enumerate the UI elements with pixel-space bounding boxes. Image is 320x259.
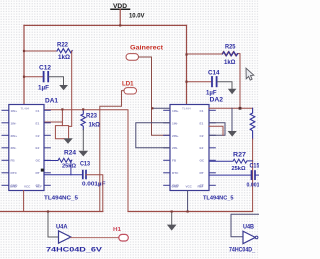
svg-text:R22: R22 xyxy=(57,43,69,49)
wire: U4A input tap xyxy=(48,212,59,238)
svg-text:REF: REF xyxy=(36,185,42,189)
ground arrow (R23 net) xyxy=(78,151,88,157)
svg-text:E2: E2 xyxy=(36,146,40,150)
chip DA2 TL494NC_5 xyxy=(170,96,234,201)
svg-text:DA2: DA2 xyxy=(210,96,224,103)
ground arrow (C14 net) xyxy=(228,89,237,94)
svg-text:E1: E1 xyxy=(200,121,204,125)
svg-text:C2: C2 xyxy=(36,134,40,138)
wire: DA1 pin1 row to bottom-right drop xyxy=(44,110,128,212)
svg-text:C12: C12 xyxy=(39,66,52,72)
wire: hook to arrow join xyxy=(62,125,68,127)
svg-text:VCC: VCC xyxy=(186,185,193,189)
ground arrow (DA2 pin1 net) xyxy=(228,108,237,136)
wire: Gainerect to DA2 pin 3 xyxy=(139,57,171,135)
svg-text:C1: C1 xyxy=(36,109,40,113)
svg-text:1kΩ: 1kΩ xyxy=(224,60,236,66)
DA1 right pin stubs xyxy=(44,110,50,185)
svg-text:25kΩ: 25kΩ xyxy=(232,166,246,172)
wire: right edge resistor down to rail xyxy=(252,139,254,212)
wire: R25 down to DA2 pin1 wire xyxy=(239,54,241,108)
svg-text:R25: R25 xyxy=(225,45,236,51)
net tag Gainerect xyxy=(126,45,163,61)
ground arrow (bottom rail) xyxy=(167,212,177,231)
svg-text:2IN-: 2IN- xyxy=(11,146,17,150)
wire: DA1 bottom pin to rail xyxy=(23,191,25,212)
wire: C14 to ground arrow xyxy=(217,82,232,89)
DA2 right pin stubs xyxy=(209,110,215,185)
capacitor C12 1µF xyxy=(38,66,52,92)
resistor R23 1kΩ xyxy=(81,110,100,130)
wire: DA2 pin1 right to right-edge resistor xyxy=(209,107,253,109)
junction (R25 net) xyxy=(239,107,242,110)
svg-text:C2: C2 xyxy=(200,134,204,138)
svg-text:1µF: 1µF xyxy=(38,86,49,92)
inverter U4B 74HC04D xyxy=(229,224,258,254)
svg-text:Gainerect: Gainerect xyxy=(130,45,163,52)
resistor R22 1kΩ xyxy=(57,43,72,61)
net tag H1 xyxy=(113,227,128,241)
svg-text:2IN+: 2IN+ xyxy=(172,134,179,138)
net tag LD1 xyxy=(122,81,137,94)
svg-text:1µF: 1µF xyxy=(206,90,217,96)
svg-text:DTC: DTC xyxy=(11,171,18,175)
wire: DA2 pin1 left feed xyxy=(152,107,170,109)
svg-text:GND: GND xyxy=(172,185,180,189)
svg-text:2IN+: 2IN+ xyxy=(11,134,18,138)
svg-text:C1: C1 xyxy=(200,109,204,113)
svg-text:10.0V: 10.0V xyxy=(129,13,145,20)
svg-text:VCC: VCC xyxy=(24,185,31,189)
svg-text:VDD: VDD xyxy=(113,3,127,10)
svg-text:LD1: LD1 xyxy=(122,81,134,88)
svg-text:RT: RT xyxy=(36,171,40,175)
svg-text:U4B: U4B xyxy=(243,224,254,231)
svg-text:74HC04D_6V: 74HC04D_6V xyxy=(46,247,103,254)
svg-text:GND: GND xyxy=(10,185,18,189)
junction (R24 at DA1 pin) xyxy=(41,169,44,172)
resistor R25 1kΩ xyxy=(187,45,241,66)
wire: R24 right drop to C13 net xyxy=(70,161,72,175)
mouse cursor xyxy=(246,68,254,80)
svg-text:1IN-: 1IN- xyxy=(11,121,17,125)
wire: left VDD drop to DA1 top pin xyxy=(23,25,25,104)
svg-text:U4A: U4A xyxy=(56,224,68,231)
capacitor C14 1µF xyxy=(187,70,221,96)
svg-text:TL494NC_5: TL494NC_5 xyxy=(203,196,234,202)
wire: VDD top rail xyxy=(24,24,187,26)
svg-text:E2: E2 xyxy=(200,146,204,150)
wire: R22 feed from VDD drop xyxy=(24,50,57,52)
svg-text:1IN+: 1IN+ xyxy=(11,109,18,113)
svg-text:REF: REF xyxy=(198,185,204,189)
wire: right VDD drop to DA2 top pin xyxy=(186,25,188,104)
svg-text:H1: H1 xyxy=(113,227,121,233)
DA1 bottom inside labels xyxy=(10,185,42,189)
DA2 bottom inside labels xyxy=(172,185,204,189)
wire: LD1 net down to bottom rail xyxy=(100,91,124,212)
wire: DA2 red jog pins xyxy=(209,126,223,135)
svg-text:C13: C13 xyxy=(80,162,91,168)
wire: DA2 bottom pin to rail xyxy=(187,191,189,213)
resistor R27 25kΩ xyxy=(209,152,253,172)
DA1 left pin stubs xyxy=(2,110,9,185)
chip DA1 TL494NC_5 xyxy=(9,98,79,202)
svg-text:E1: E1 xyxy=(36,121,40,125)
svg-text:2IN-: 2IN- xyxy=(172,146,178,150)
wire: DA2 left pins 2-4 loop xyxy=(136,123,170,148)
svg-text:C14: C14 xyxy=(208,70,220,76)
svg-text:1IN-: 1IN- xyxy=(172,121,178,125)
svg-text:R24: R24 xyxy=(64,151,77,157)
DA1 pin labels xyxy=(11,109,19,188)
DA2 pin labels xyxy=(172,109,180,188)
svg-text:DA1: DA1 xyxy=(45,98,58,105)
ground arrow (C12 net) xyxy=(59,85,68,90)
svg-text:C15: C15 xyxy=(250,164,260,170)
svg-text:DTC: DTC xyxy=(172,171,179,175)
wire: bottom right ground rail xyxy=(128,211,253,213)
resistor R24 25kΩ xyxy=(44,151,77,170)
svg-text:OC: OC xyxy=(36,159,41,163)
svg-text:1kΩ: 1kΩ xyxy=(58,55,70,61)
svg-text:RT: RT xyxy=(200,171,204,175)
svg-text:OC: OC xyxy=(200,159,205,163)
chip interior faint marks xyxy=(21,107,192,111)
svg-text:R27: R27 xyxy=(233,152,247,158)
svg-text:R23: R23 xyxy=(86,113,98,119)
wire: C13 right to RC drop xyxy=(86,175,103,212)
svg-text:25kΩ: 25kΩ xyxy=(62,164,76,170)
svg-text:1IN+: 1IN+ xyxy=(172,109,179,113)
wire: C12 to ground arrow xyxy=(49,77,64,85)
wire: R22 down to ground arrow xyxy=(69,51,72,138)
capacitor C13 0.001µF xyxy=(44,162,106,188)
wire: R23 down to ground arrow xyxy=(82,130,84,150)
wire: U4B input net xyxy=(231,214,259,237)
inverter U4A 74HC04D_6V xyxy=(46,224,103,254)
svg-text:TL494: TL494 xyxy=(21,107,30,111)
resistor R26 (right edge, vertical) xyxy=(250,108,255,139)
power VDD xyxy=(111,3,145,25)
svg-text:74HC04D_: 74HC04D_ xyxy=(229,247,255,254)
wire: DA1 pin1-pin2 feedback loop xyxy=(44,109,62,122)
wire: U4A output to H1 xyxy=(71,237,119,239)
wire: C12 feed from VDD drop xyxy=(24,76,43,78)
svg-text:TL494: TL494 xyxy=(182,107,191,111)
svg-text:TL494NC_5: TL494NC_5 xyxy=(44,196,79,202)
svg-text:1kΩ: 1kΩ xyxy=(89,122,101,128)
capacitor C15 0.001µF xyxy=(209,164,260,189)
wire: bottom left ground rail xyxy=(0,211,103,213)
svg-text:0.001: 0.001 xyxy=(247,183,260,189)
wire: DA1 pin2-pin3 hook xyxy=(55,122,64,139)
ground arrow (R22 net) xyxy=(63,138,73,143)
DA2 left pin stubs xyxy=(164,110,170,185)
wire: DA2 right pins 2-3 loop xyxy=(209,123,225,136)
